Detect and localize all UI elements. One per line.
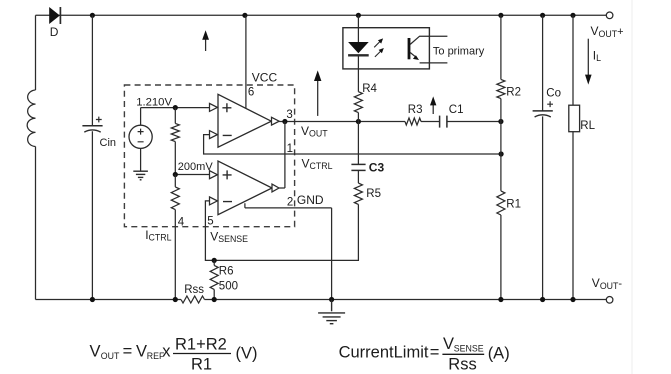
wire left riser lower xyxy=(35,147,37,300)
wire VSENSE pin 5 xyxy=(205,201,358,261)
op-amp U1A xyxy=(210,94,280,147)
junction pin3 output xyxy=(282,119,287,124)
junction VCTRL at divider xyxy=(499,151,504,156)
wire Co bottom xyxy=(542,116,544,299)
wire Cin upper xyxy=(91,15,93,125)
wire C1 to divider xyxy=(447,121,501,123)
junction GND bottom bus xyxy=(329,297,334,302)
wire VCTRL pin 1 feedback xyxy=(204,135,502,154)
wire C3 to R5 xyxy=(357,170,359,183)
svg-text:RL: RL xyxy=(580,120,595,132)
resistor Rss xyxy=(181,296,205,303)
capacitor Co xyxy=(533,111,553,117)
wire R2 bottom to R1 top xyxy=(500,99,502,191)
wire U1B output xyxy=(279,187,285,189)
svg-text:R1: R1 xyxy=(506,199,521,211)
arrow bias up right xyxy=(314,70,321,116)
resistor R1 xyxy=(497,191,505,215)
wire R1 bottom xyxy=(500,215,502,300)
junction node opto top xyxy=(356,13,361,18)
inductor L1 xyxy=(27,90,35,147)
wire RL bottom xyxy=(572,132,574,300)
junction 1.210V node xyxy=(173,105,178,110)
svg-text:2: 2 xyxy=(287,196,293,208)
svg-text:5: 5 xyxy=(207,215,213,227)
svg-text:GND: GND xyxy=(297,193,324,207)
wire bottom bus VOUT- rail right xyxy=(205,299,607,301)
svg-text:500: 500 xyxy=(219,280,238,292)
resistor internal upper xyxy=(171,108,179,175)
junction pin4 bottom bus xyxy=(173,297,178,302)
arrow bias up left xyxy=(202,30,209,51)
wire top bus VOUT+ rail xyxy=(36,14,607,16)
svg-text:=: = xyxy=(123,342,133,360)
svg-text:R2: R2 xyxy=(506,87,521,99)
junction Cin bottom xyxy=(90,297,95,302)
svg-text:Co: Co xyxy=(546,87,561,99)
svg-text:6: 6 xyxy=(248,86,254,98)
resistor internal lower xyxy=(171,175,179,210)
wire 1.210V reference node xyxy=(141,107,210,109)
LED light arrows xyxy=(374,38,384,57)
junction R4 bottom node xyxy=(356,119,361,124)
svg-text:V: V xyxy=(443,335,454,353)
svg-text:1: 1 xyxy=(287,143,293,155)
wire LED cathode to R4 xyxy=(357,55,359,91)
resistor R6 xyxy=(210,260,218,299)
wire Cin lower xyxy=(91,131,93,299)
terminal VOUT- xyxy=(606,297,613,304)
wire Co top xyxy=(542,15,544,111)
optocoupler U2 box xyxy=(343,28,430,69)
svg-text:R5: R5 xyxy=(366,188,381,200)
svg-text:D: D xyxy=(50,25,59,39)
junction node R2 top xyxy=(498,13,503,18)
formula Vout xyxy=(90,335,258,373)
arrow small up between R3 C1 xyxy=(430,96,436,114)
junction node Cin top xyxy=(90,13,95,18)
op-amp U1B xyxy=(210,161,280,215)
junction node VCC top xyxy=(242,13,247,18)
svg-text:R3: R3 xyxy=(408,104,423,116)
svg-text:x: x xyxy=(162,342,171,360)
wire pin3 to lower amp output xyxy=(284,122,286,189)
svg-text:C3: C3 xyxy=(369,160,385,174)
capacitor Cin xyxy=(82,126,102,132)
svg-text:=: = xyxy=(430,344,440,362)
junction 200mV node xyxy=(173,172,178,177)
svg-text:To primary: To primary xyxy=(433,45,485,57)
capacitor C1 xyxy=(440,116,447,128)
wire bottom bus VOUT- rail left xyxy=(36,299,182,301)
svg-text:Rss: Rss xyxy=(184,284,204,296)
svg-text:(A): (A) xyxy=(488,345,510,363)
svg-text:Cin: Cin xyxy=(100,137,117,149)
LED U2 xyxy=(348,42,369,55)
junction R6 bottom xyxy=(212,297,217,302)
junction node Co top xyxy=(540,13,545,18)
wire pin 4 ICTRL xyxy=(174,210,176,300)
ground main earth xyxy=(318,300,345,324)
label Co plus xyxy=(547,101,553,107)
wire VCC pin 6 xyxy=(245,15,247,108)
resistor R5 xyxy=(354,183,362,204)
svg-text:R6: R6 xyxy=(219,265,234,277)
svg-text:R1+R2: R1+R2 xyxy=(175,335,227,353)
svg-text:R4: R4 xyxy=(362,83,377,95)
svg-text:200mV: 200mV xyxy=(178,161,214,173)
IC U1 dashed outline xyxy=(124,85,294,227)
svg-text:C1: C1 xyxy=(449,104,464,116)
wire R2 top xyxy=(500,15,502,79)
terminal VOUT+ xyxy=(606,12,613,19)
junction Co bottom xyxy=(540,297,545,302)
junction node RL top xyxy=(570,13,575,18)
resistor R4 xyxy=(354,92,362,122)
page rule (decorative) xyxy=(631,0,633,374)
resistor R3 xyxy=(405,118,421,125)
diode D xyxy=(49,7,60,24)
voltage source Vref 1.210V xyxy=(129,108,152,171)
svg-text:3: 3 xyxy=(286,109,292,121)
wire 200mV node xyxy=(175,174,209,176)
wire LED anode xyxy=(357,15,359,42)
junction RL bottom xyxy=(570,297,575,302)
arrow IL load current xyxy=(585,39,592,85)
resistor RL xyxy=(569,105,580,132)
resistor R2 xyxy=(497,79,505,98)
svg-text:VCC: VCC xyxy=(252,71,278,85)
ground below Vref xyxy=(133,171,148,180)
svg-text:R1: R1 xyxy=(191,356,212,374)
label Cin plus xyxy=(96,117,102,123)
wire left riser xyxy=(35,15,37,90)
svg-text:Rss: Rss xyxy=(448,355,476,373)
formula CurrentLimit xyxy=(339,335,510,374)
junction R6 top xyxy=(212,258,217,263)
svg-text:(V): (V) xyxy=(236,345,258,363)
svg-text:SENSE: SENSE xyxy=(454,344,484,354)
svg-text:1.210V: 1.210V xyxy=(136,96,172,108)
svg-text:CurrentLimit: CurrentLimit xyxy=(339,344,429,362)
phototransistor Q1 xyxy=(408,36,448,63)
wire VOUT node down to C3 xyxy=(357,122,359,165)
junction VOUT at R2 xyxy=(498,119,503,124)
capacitor C3 xyxy=(351,164,365,170)
wire VOUT pin 3 to R3 xyxy=(279,121,405,123)
svg-text:V: V xyxy=(90,342,101,360)
junction R1 bottom bus xyxy=(498,297,503,302)
wire R3 to C1 xyxy=(421,121,440,123)
svg-text:4: 4 xyxy=(178,216,185,228)
wire RL top xyxy=(572,15,574,105)
svg-text:V: V xyxy=(136,342,147,360)
wire GND pin 2 xyxy=(245,203,332,299)
svg-text:OUT: OUT xyxy=(101,351,120,361)
